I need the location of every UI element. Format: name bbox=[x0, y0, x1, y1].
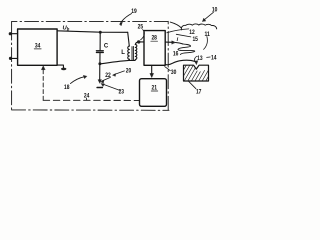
svg-text:17: 17 bbox=[196, 90, 202, 96]
wire output to spray bbox=[176, 43, 183, 44]
dashed control line to box 21 bbox=[43, 99, 139, 101]
label C bbox=[104, 44, 109, 50]
leader tick 24 bbox=[85, 98, 87, 100]
arrowhead output i bbox=[172, 41, 176, 44]
svg-text:34: 34 bbox=[35, 43, 41, 50]
box 21 bbox=[140, 79, 167, 107]
ground bar bbox=[97, 87, 102, 89]
label 13 bbox=[197, 56, 203, 62]
arrowhead ground branch bbox=[98, 80, 102, 84]
label 23 bbox=[119, 89, 125, 95]
label 12 bbox=[189, 30, 195, 36]
label 20 bbox=[126, 69, 132, 75]
terminal dot lower left bbox=[9, 57, 12, 60]
node junction dot C/L bottom bbox=[98, 62, 101, 65]
arrowhead spark gap bbox=[194, 61, 198, 65]
leader 13 bbox=[195, 56, 197, 61]
svg-text:12: 12 bbox=[189, 30, 195, 36]
label 15 bbox=[192, 37, 198, 43]
capacitor C wire upper bbox=[99, 32, 101, 50]
label 10 bbox=[212, 7, 218, 13]
label i bbox=[177, 37, 179, 43]
svg-text:20: 20 bbox=[126, 69, 132, 75]
label L bbox=[121, 50, 125, 56]
leader 12 bbox=[167, 29, 189, 33]
spray scribble bbox=[178, 44, 195, 55]
leader 30 bbox=[165, 67, 171, 71]
leader arrow 22 bbox=[102, 77, 110, 81]
capacitor C wire lower bbox=[99, 53, 101, 64]
label 24 bbox=[84, 94, 90, 100]
label 21 bbox=[152, 86, 158, 92]
capacitor C plates bbox=[96, 51, 103, 53]
svg-text:19: 19 bbox=[131, 9, 137, 15]
label 25 bbox=[138, 24, 144, 30]
svg-text:30: 30 bbox=[171, 70, 177, 76]
label 11 bbox=[204, 32, 210, 38]
workpiece block 17 hatched bbox=[184, 65, 209, 81]
wire high-voltage to workpiece bbox=[165, 60, 195, 65]
leader arrow 19 bbox=[120, 14, 132, 25]
transformer primary winding L bbox=[128, 46, 130, 59]
label 14 bbox=[211, 56, 217, 62]
box 28 bbox=[144, 31, 165, 66]
wire secondary top to box 28 bbox=[135, 42, 144, 45]
wire output current i bbox=[165, 41, 172, 43]
ground blob bbox=[61, 68, 66, 71]
wire ground branch bbox=[99, 64, 101, 80]
ground stub box 34 bbox=[57, 65, 63, 68]
wire resonant loop bottom bbox=[100, 60, 129, 64]
dash-dot housing boundary 19 bbox=[12, 21, 169, 110]
transformer secondary winding bbox=[135, 44, 137, 59]
leader 17 bbox=[189, 81, 196, 88]
label Ub bbox=[63, 25, 70, 31]
wire terminal to box 34 lower bbox=[11, 57, 18, 59]
wire secondary bottom bbox=[129, 59, 136, 62]
leader arrow 20 bbox=[114, 71, 125, 75]
svg-text:18: 18 bbox=[64, 85, 70, 91]
wire supply rail Ub bbox=[57, 31, 128, 33]
leader 11 bbox=[204, 37, 208, 50]
svg-text:24: 24 bbox=[84, 94, 90, 100]
dashed control line box34 down bbox=[42, 70, 44, 101]
transformer core bbox=[132, 46, 133, 60]
label 19 bbox=[131, 9, 137, 15]
node junction dot secondary top bbox=[137, 40, 140, 43]
leader arrow 23 bbox=[103, 84, 120, 90]
svg-text:28: 28 bbox=[151, 36, 157, 42]
box 34 bbox=[18, 29, 58, 65]
leader arrow 18 bbox=[70, 77, 84, 84]
label 17 bbox=[196, 90, 202, 96]
label 34 bbox=[35, 43, 41, 50]
arrow 28 to 21 bbox=[151, 65, 153, 74]
transformer primary bottom lead bbox=[128, 59, 130, 60]
node junction dot rail/C bbox=[99, 31, 102, 34]
label 30 bbox=[171, 70, 177, 76]
svg-text:b: b bbox=[67, 26, 70, 31]
transformer primary lead bbox=[128, 32, 130, 46]
spray cloud top brace bbox=[170, 22, 217, 30]
arrowhead control into box 34 bbox=[41, 66, 45, 70]
terminal dot upper left bbox=[9, 32, 12, 35]
svg-text:13: 13 bbox=[197, 56, 203, 62]
svg-text:14: 14 bbox=[211, 56, 217, 62]
svg-text:11: 11 bbox=[204, 32, 210, 38]
leader arrow 10 bbox=[204, 12, 213, 19]
leader 15 bbox=[176, 34, 191, 37]
svg-text:15: 15 bbox=[192, 37, 198, 43]
leader arrow 25 bbox=[141, 30, 145, 40]
svg-text:C: C bbox=[104, 44, 109, 50]
svg-text:L: L bbox=[121, 50, 125, 56]
label 16 bbox=[173, 52, 179, 58]
svg-text:16: 16 bbox=[173, 52, 179, 58]
label 22 bbox=[105, 73, 111, 79]
leader dash 14 bbox=[207, 56, 211, 58]
label 28 bbox=[151, 36, 157, 42]
label 18 bbox=[64, 85, 70, 91]
wire terminal to box 34 upper bbox=[10, 33, 17, 35]
